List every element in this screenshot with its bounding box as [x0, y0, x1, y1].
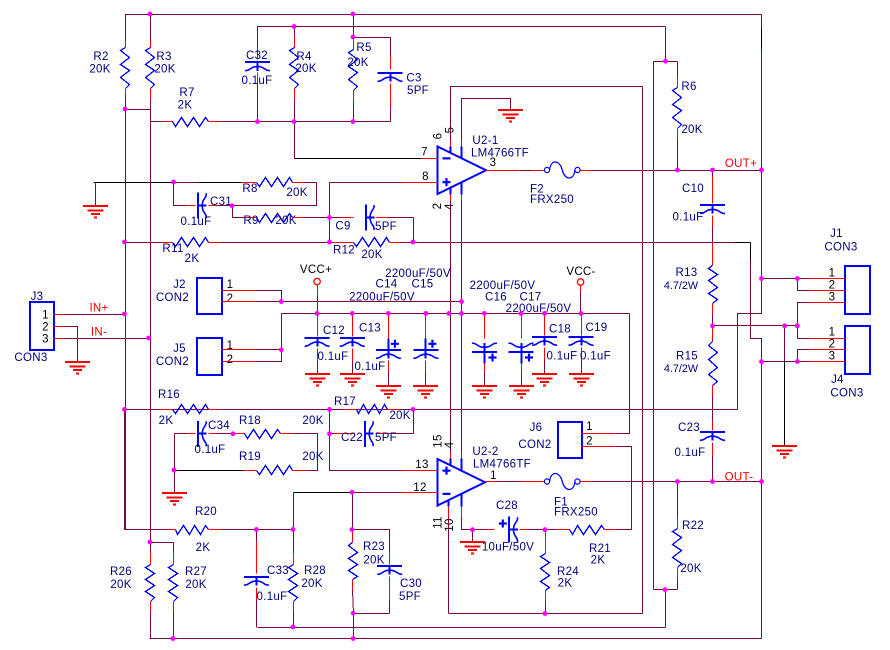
- junction R22 bottom: [663, 587, 668, 592]
- junction on x=797.3 at row 325.8: [795, 323, 800, 328]
- resistor R4: [294, 27, 296, 36]
- svg-text:2K: 2K: [185, 253, 200, 265]
- svg-text:4.7/2W: 4.7/2W: [664, 280, 699, 292]
- junction R26/R27 top: [148, 540, 153, 545]
- wire bus down to U2-2 pin15: [450, 314, 452, 452]
- svg-text:20K: 20K: [110, 579, 131, 591]
- svg-text:OUT-: OUT-: [725, 472, 754, 484]
- svg-text:2: 2: [829, 280, 836, 292]
- ground below J4: [772, 446, 797, 458]
- junction R19 left / ground column: [172, 468, 177, 473]
- junction R11 left on column x=125: [122, 240, 127, 245]
- wire pin12 input (black): [294, 492, 352, 494]
- resistor R8: [242, 182, 257, 184]
- svg-text:3: 3: [829, 292, 836, 304]
- resistor R18: [234, 433, 245, 435]
- svg-text:C15: C15: [412, 279, 434, 291]
- connector J6 CON2: [558, 422, 582, 458]
- J6 pin1 stub: [582, 433, 618, 435]
- resistor R16: [125, 409, 161, 411]
- resistor R26: [150, 543, 152, 553]
- J2 pin2 stub: [222, 301, 257, 303]
- svg-text:0.1uF: 0.1uF: [673, 212, 704, 224]
- svg-text:R28: R28: [304, 565, 326, 577]
- resistor R11: [125, 242, 162, 244]
- junction R23 bottom: [351, 611, 356, 616]
- svg-text:R16: R16: [158, 389, 180, 401]
- wire header y=61.2: [654, 61, 678, 63]
- wire speaker return row y=324.7: [713, 325, 798, 327]
- capacitor C23: [712, 421, 714, 431]
- svg-text:CON2: CON2: [156, 356, 189, 368]
- resistor R6: [677, 62, 679, 76]
- wire row y=409.4 long horizontal: [125, 409, 738, 411]
- U2-2 pin 10 stub: [461, 494, 463, 507]
- svg-text:C9: C9: [335, 221, 350, 233]
- J3 pin1 stub: [54, 314, 66, 316]
- svg-text:R5: R5: [356, 42, 371, 54]
- svg-text:3: 3: [490, 157, 497, 169]
- capacitor C9: [330, 217, 342, 219]
- junction R22 top on OUT-: [675, 479, 680, 484]
- resistor R15: [712, 326, 714, 342]
- J1 pin1 stub: [810, 278, 846, 280]
- svg-text:C31: C31: [210, 196, 232, 208]
- resistor R20: [125, 410, 167, 530]
- connector J3 CON3: [30, 302, 54, 350]
- junction C28 ground tap: [470, 527, 475, 532]
- ground C17: [509, 386, 534, 398]
- svg-text:3: 3: [829, 351, 836, 363]
- junction C34/R18 node: [231, 431, 236, 436]
- svg-text:C33: C33: [267, 565, 289, 577]
- svg-text:2K: 2K: [159, 415, 174, 427]
- junction C16 top: [482, 311, 487, 316]
- connector J5 CON2: [197, 338, 222, 375]
- svg-text:R12: R12: [333, 245, 355, 257]
- svg-text:1: 1: [586, 421, 593, 433]
- wire OUT- column down to bottom row: [761, 482, 763, 639]
- junction x=665.5 y=61: [663, 59, 668, 64]
- wire bottom row y=638.5: [150, 638, 762, 640]
- svg-text:7: 7: [421, 147, 428, 159]
- svg-text:6: 6: [433, 133, 445, 140]
- U2-1 pin 6 stub: [450, 141, 452, 147]
- wire R7 row y=122 to R5/C3 junction: [221, 121, 354, 123]
- svg-text:20K: 20K: [302, 451, 323, 463]
- svg-text:R21: R21: [589, 543, 611, 555]
- svg-text:2K: 2K: [591, 555, 606, 567]
- J1 pin3 stub: [810, 302, 846, 304]
- wire x=665 down to row 626: [665, 590, 667, 628]
- junction C18 top: [542, 311, 547, 316]
- svg-text:11: 11: [433, 516, 445, 529]
- svg-text:R8: R8: [242, 183, 257, 195]
- junction R16/R17 node: [327, 407, 332, 412]
- fuse F1 FRX250: [544, 479, 549, 484]
- J4 pin2 stub: [810, 349, 846, 351]
- junction R2/R3 bottom: [123, 107, 128, 112]
- svg-text:IN-: IN-: [91, 327, 107, 339]
- J3 pin2 stub: [54, 326, 66, 328]
- svg-text:C13: C13: [359, 323, 381, 335]
- junction C30 top tap: [350, 527, 355, 532]
- wire bottom row y=613.5: [449, 613, 642, 615]
- svg-text:R18: R18: [239, 415, 261, 427]
- svg-text:2: 2: [829, 339, 836, 351]
- svg-text:CON2: CON2: [156, 292, 189, 304]
- junction R23/C30 bottom column: [351, 636, 356, 641]
- svg-text:J2: J2: [173, 279, 186, 291]
- svg-text:10: 10: [444, 518, 456, 531]
- svg-text:R24: R24: [557, 566, 579, 578]
- capacitor C10: [712, 171, 714, 177]
- svg-text:R23: R23: [363, 541, 385, 553]
- wire pin10 corner to C28: [462, 518, 473, 530]
- ground at J3 pin2: [65, 362, 90, 374]
- wire bus right corner down to J6 pin1: [618, 314, 630, 434]
- fuse F2 FRX250: [544, 167, 549, 172]
- junction pin4 column bus: [459, 311, 464, 316]
- resistor R17: [330, 409, 344, 411]
- wire main cap bus y=313.4: [282, 313, 630, 315]
- junction R9/C9 node: [327, 215, 332, 220]
- svg-text:C18: C18: [549, 324, 571, 336]
- svg-text:4: 4: [444, 441, 456, 448]
- junction pin2 column bus: [447, 311, 452, 316]
- wire R11 to feedback node: [221, 242, 330, 244]
- wire U2-1 pin4 column down: [461, 201, 463, 314]
- svg-text:20K: 20K: [363, 555, 384, 567]
- svg-text:R11: R11: [162, 243, 183, 255]
- svg-text:5PF: 5PF: [375, 221, 397, 233]
- J5 pin2 stub: [222, 361, 257, 363]
- connector J2 CON2: [197, 278, 222, 314]
- U2-1 pin 2 stub: [450, 188, 452, 195]
- J4 pin3 stub: [810, 361, 846, 363]
- wire U2-1 pin6 net to right column x=642.5: [451, 87, 643, 141]
- svg-text:R7: R7: [179, 87, 194, 99]
- svg-text:CON2: CON2: [518, 439, 551, 451]
- wire J3 pin2 to ground: [66, 327, 78, 362]
- svg-text:20K: 20K: [89, 64, 110, 76]
- svg-text:2: 2: [586, 436, 593, 448]
- wire OUT+ row to right: [593, 170, 762, 172]
- ground C15: [413, 386, 438, 398]
- junction OUT- column: [759, 479, 764, 484]
- capacitor C30: [389, 553, 391, 565]
- junction C28/R24/R21 node: [543, 527, 548, 532]
- svg-text:1: 1: [227, 279, 234, 291]
- junction IN- on column x=150: [146, 336, 151, 341]
- wire J4 pin3 row: [762, 361, 810, 363]
- capacitor C32: [257, 51, 259, 60]
- svg-text:0.1uF: 0.1uF: [181, 216, 212, 228]
- svg-text:C19: C19: [586, 322, 608, 334]
- resistor R22: [677, 482, 679, 517]
- junction C33 top: [254, 527, 259, 532]
- J4 pin1 stub: [810, 338, 846, 340]
- wire R23/C30 bottom row y=613.2: [354, 613, 390, 615]
- U2-2 pin 4 stub: [461, 452, 463, 459]
- junction IN+ on column x=125: [122, 312, 127, 317]
- wire down to U2-2 pin4: [461, 314, 463, 452]
- J5 pin1 stub: [222, 349, 257, 351]
- wire R23/C30 node column: [352, 493, 354, 530]
- svg-text:CON3: CON3: [14, 352, 47, 364]
- capacitor C13: [352, 314, 354, 337]
- junction gnd column: [782, 323, 787, 328]
- junction R5/C3 bottom: [351, 119, 356, 124]
- wire IN- from J3 pin3: [66, 338, 149, 340]
- wire second rail y=26.5 (C32 top to right): [258, 27, 666, 51]
- capacitor C33: [256, 530, 258, 542]
- svg-text:LM4766TF: LM4766TF: [473, 459, 531, 471]
- svg-text:C14: C14: [376, 279, 398, 291]
- wire power row1 y=301.5: [282, 301, 462, 303]
- junction C19/VCC- top: [579, 311, 584, 316]
- connector J1 CON3: [845, 266, 870, 314]
- ground left of C31: [83, 206, 108, 218]
- svg-text:C10: C10: [682, 183, 704, 195]
- svg-text:C32: C32: [246, 50, 268, 62]
- wire J2 pin1 corner: [257, 291, 282, 302]
- junction C14 top: [386, 311, 391, 316]
- junction C10 top on OUT+: [710, 168, 715, 173]
- svg-text:C17: C17: [520, 292, 542, 304]
- svg-text:R26: R26: [110, 566, 132, 578]
- svg-text:VCC+: VCC+: [300, 264, 332, 276]
- U2-1 pin 5 stub: [461, 141, 463, 147]
- svg-text:20K: 20K: [295, 63, 316, 75]
- svg-text:R2: R2: [93, 51, 108, 63]
- svg-text:J1: J1: [830, 228, 843, 240]
- ground C14: [376, 386, 401, 398]
- wire U2-1 pin8 column x=329.5: [329, 183, 331, 243]
- junction J5 pins tie: [279, 347, 284, 352]
- svg-text:C23: C23: [678, 422, 700, 434]
- wire U2-1 pin5 to ground: [462, 99, 511, 141]
- svg-text:C16: C16: [485, 292, 507, 304]
- svg-text:20K: 20K: [286, 187, 307, 199]
- wire C9 right down to R12 row: [413, 218, 415, 243]
- op-amp U2-2 LM4766TF: [438, 459, 486, 506]
- svg-text:2: 2: [42, 322, 49, 334]
- junction R28 crossing R20 row: [291, 527, 296, 532]
- svg-text:U2-2: U2-2: [472, 446, 498, 458]
- junction R23 top node: [350, 490, 355, 495]
- junction R5/C3 top: [351, 35, 356, 40]
- resistor R19: [175, 470, 178, 472]
- junction R13/R15 node: [710, 323, 715, 328]
- wire ground column x=784.6: [784, 326, 786, 362]
- wire pin13 column x=329.5: [329, 410, 331, 434]
- svg-text:CON3: CON3: [830, 388, 863, 400]
- wire R26/R27 top junction: [151, 542, 174, 544]
- U2-1 output pin 3: [487, 170, 522, 172]
- svg-text:3: 3: [42, 334, 49, 346]
- wire C34 left column x=174: [174, 434, 176, 471]
- ground at C28/pin10: [472, 530, 474, 543]
- svg-text:13: 13: [415, 459, 428, 471]
- capacitor C12: [317, 314, 319, 337]
- wire IN+ from J3 pin1: [66, 314, 125, 316]
- capacitor C18: [544, 314, 546, 336]
- wire R22 bottom row y=589.6: [654, 589, 678, 591]
- svg-text:LM4766TF: LM4766TF: [471, 148, 529, 160]
- svg-text:C22: C22: [341, 432, 363, 444]
- J6 pin2 stub: [582, 446, 618, 448]
- ground at U2-1 pin5: [498, 110, 523, 122]
- svg-text:0.1uF: 0.1uF: [257, 591, 288, 603]
- wire J5 pin1 to bus corner: [257, 349, 282, 351]
- svg-text:2200uF/50V: 2200uF/50V: [385, 268, 451, 280]
- junction R6 bottom on OUT+: [675, 168, 680, 173]
- junction C15 top: [424, 311, 429, 316]
- svg-text:2: 2: [227, 354, 234, 366]
- resistor R7: [151, 121, 164, 123]
- wire top-right corner down x=761.5: [761, 15, 763, 29]
- svg-text:20K: 20K: [275, 215, 296, 227]
- svg-text:0.1uF: 0.1uF: [242, 75, 273, 87]
- svg-text:0.1uF: 0.1uF: [355, 361, 386, 373]
- junction feedback node on R11 row: [327, 240, 332, 245]
- svg-text:20K: 20K: [347, 57, 368, 69]
- svg-text:J6: J6: [530, 422, 543, 434]
- wire R5/C3 top tie: [353, 15, 355, 38]
- U2-2 pin 11 stub: [448, 500, 450, 507]
- wire left column x=125 (junction to R20 row): [125, 110, 127, 530]
- svg-text:20K: 20K: [681, 124, 702, 136]
- wire J4 pin2 loop down: [798, 350, 810, 362]
- resistor R28: [293, 493, 295, 530]
- wire R3 bottom joining R2: [126, 101, 151, 110]
- J1 pin2 stub: [810, 290, 846, 292]
- junction at J4 pin2/3 row: [759, 359, 764, 364]
- svg-text:C3: C3: [406, 73, 421, 85]
- svg-text:2K: 2K: [178, 100, 193, 112]
- junction R4 top: [292, 24, 297, 29]
- svg-text:20K: 20K: [154, 64, 175, 76]
- resistor R2: [125, 41, 127, 48]
- junction R24 bottom: [543, 611, 548, 616]
- ground C18: [532, 374, 557, 386]
- svg-text:20K: 20K: [301, 578, 322, 590]
- connector J4 CON3: [845, 326, 870, 374]
- capacitor C16 polarized flipped: [484, 314, 486, 339]
- wire x=750 down and jog to x=761.5: [751, 261, 762, 362]
- wire x=642.5 column bottom corner: [642, 613, 643, 615]
- capacitor C28 polarized: [448, 518, 450, 614]
- junction C31 tap: [171, 180, 176, 185]
- junction top rail / R5: [351, 12, 356, 17]
- svg-text:0.1uF: 0.1uF: [195, 444, 226, 456]
- ground C12: [305, 374, 330, 386]
- capacitor C34: [175, 433, 187, 435]
- svg-text:J4: J4: [831, 374, 844, 386]
- svg-text:R20: R20: [195, 506, 217, 518]
- capacitor C14 polarized: [388, 314, 390, 339]
- svg-text:R6: R6: [681, 81, 696, 93]
- svg-text:20K: 20K: [361, 249, 382, 261]
- ground C13: [340, 374, 365, 386]
- svg-text:R13: R13: [676, 267, 698, 279]
- junction J2 pins tie: [279, 299, 284, 304]
- wire bus corner down to J5: [281, 314, 283, 350]
- junction R28 bottom: [291, 625, 296, 630]
- U2-1 pin 4 stub: [461, 183, 463, 195]
- svg-text:0.1uF: 0.1uF: [675, 447, 706, 459]
- resistor R27: [173, 543, 175, 553]
- wire J6 pin2 down to R21: [618, 447, 632, 530]
- J3 pin3 stub: [54, 338, 66, 340]
- svg-text:10uF/50V: 10uF/50V: [482, 542, 534, 554]
- capacitor C31: [174, 183, 187, 206]
- J2 pin1 stub: [222, 290, 257, 292]
- resistor R24: [545, 530, 547, 554]
- ground below R19: [162, 493, 187, 505]
- svg-text:2200uF/50V: 2200uF/50V: [470, 280, 536, 292]
- resistor R9: [233, 206, 245, 218]
- junction C31/R9 node: [230, 203, 235, 208]
- svg-text:C34: C34: [208, 420, 230, 432]
- junction C32 bottom: [255, 119, 260, 124]
- wire black jog to x=750: [734, 242, 751, 244]
- capacitor C19: [581, 314, 583, 336]
- svg-text:FRX250: FRX250: [530, 194, 574, 206]
- svg-text:OUT+: OUT+: [725, 158, 757, 170]
- svg-text:R17: R17: [334, 396, 356, 408]
- junction R17 right node: [411, 407, 416, 412]
- resistor R13: [712, 243, 714, 266]
- wire x=150 column (R7 tap down to IN- and R26): [150, 110, 152, 543]
- wire R8 right loop down to C31 row: [233, 183, 317, 206]
- resistor R23: [352, 530, 354, 543]
- junction J4 pin2/pin3: [795, 359, 800, 364]
- svg-text:R22: R22: [682, 520, 704, 532]
- wire C30 top link: [353, 530, 390, 553]
- resistor R3: [150, 15, 152, 41]
- wire top rail y=14 (R2 top to right corner): [126, 15, 762, 41]
- U2-2 output pin 1: [486, 481, 498, 483]
- wire OUT+ segment down from J4 row: [761, 362, 763, 482]
- junction OUT+ corner column: [759, 168, 764, 173]
- junction J1 pin1 tie: [759, 276, 764, 281]
- resistor R5: [353, 38, 355, 50]
- svg-text:5PF: 5PF: [407, 85, 429, 97]
- capacitor C15 polarized: [425, 314, 427, 339]
- svg-text:FRX250: FRX250: [554, 507, 598, 519]
- junction C13 top: [350, 311, 355, 316]
- svg-text:C30: C30: [400, 578, 422, 590]
- svg-text:0.1uF: 0.1uF: [580, 351, 611, 363]
- wire inverting feedback row y=242 to right: [414, 242, 734, 244]
- wire U2-1 pin2 column down to bus: [450, 201, 452, 314]
- junction at J1 pin3 column: [795, 323, 800, 328]
- svg-text:5PF: 5PF: [375, 432, 397, 444]
- svg-text:2K: 2K: [196, 542, 211, 554]
- junction C22 row left: [327, 431, 332, 436]
- U2-2 pin 15 stub: [450, 452, 452, 459]
- wire x=653.5 column down: [653, 62, 655, 590]
- svg-text:R9: R9: [243, 215, 258, 227]
- wire C22 right corner up to R17: [413, 410, 415, 434]
- wire J1 pin1 row: [762, 278, 810, 280]
- junction C17 top: [519, 311, 524, 316]
- wire ground stem x=174: [174, 471, 176, 494]
- svg-text:0.1uF: 0.1uF: [318, 351, 349, 363]
- svg-text:20K: 20K: [185, 579, 206, 591]
